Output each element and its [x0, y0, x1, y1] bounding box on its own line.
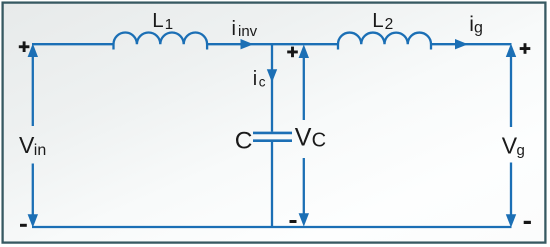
- svg-text:inv: inv: [238, 23, 258, 40]
- svg-text:i: i: [232, 18, 236, 40]
- svg-text:g: g: [517, 142, 525, 159]
- svg-text:g: g: [474, 19, 483, 36]
- svg-text:V: V: [295, 124, 312, 152]
- svg-text:2: 2: [385, 16, 394, 33]
- svg-text:c: c: [259, 74, 266, 89]
- svg-text:i: i: [253, 68, 257, 90]
- svg-text:L: L: [372, 9, 383, 32]
- svg-text:in: in: [34, 142, 46, 159]
- svg-text:1: 1: [165, 16, 173, 33]
- svg-text:C: C: [235, 128, 253, 155]
- svg-text:C: C: [312, 129, 326, 151]
- svg-text:V: V: [19, 132, 35, 158]
- svg-text:L: L: [152, 9, 163, 32]
- svg-text:V: V: [502, 132, 518, 158]
